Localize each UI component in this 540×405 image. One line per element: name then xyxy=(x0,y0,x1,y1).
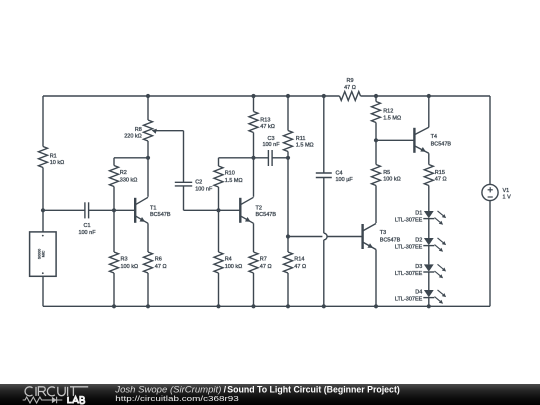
wire R5 bottom to T3 collector xyxy=(375,186,377,224)
svg-text:47 Ω: 47 Ω xyxy=(155,264,167,270)
wire R8 wiper to C2 xyxy=(156,130,184,132)
capacitor C2 xyxy=(175,181,192,183)
wire top supply rail right segment xyxy=(361,95,491,97)
wire right rail lower (V1 bottom) xyxy=(489,200,491,306)
resistor R14 xyxy=(284,252,293,273)
svg-text:C2: C2 xyxy=(195,180,202,186)
node junction R11 column / T3 base row xyxy=(286,234,290,238)
svg-text:10 kΩ: 10 kΩ xyxy=(50,160,65,166)
LED D2 xyxy=(424,238,434,245)
svg-text:47 Ω: 47 Ω xyxy=(435,177,447,183)
transistor T4 xyxy=(413,128,415,153)
svg-text:R9: R9 xyxy=(346,78,353,84)
wire T4 base row xyxy=(376,139,414,141)
svg-text:C3: C3 xyxy=(267,136,274,142)
wire R11 top lead xyxy=(287,96,289,131)
node junction R7 ground xyxy=(251,304,255,308)
wire R15 to D1 xyxy=(428,186,430,212)
svg-text:R11: R11 xyxy=(296,136,306,142)
potentiometer R8 xyxy=(144,120,153,141)
wire right rail upper (V1 top) xyxy=(489,96,491,185)
node junction R6 ground xyxy=(146,304,150,308)
transistor T1 xyxy=(134,198,136,223)
svg-text:R4: R4 xyxy=(225,256,232,262)
svg-text:R12: R12 xyxy=(383,109,393,115)
wire T3 base row xyxy=(288,236,322,238)
resistor R10 xyxy=(214,166,223,187)
resistor R2 xyxy=(110,166,119,187)
wire D2 to D3 xyxy=(428,246,430,265)
node junction top rail / C4 xyxy=(322,94,326,98)
voltage source V1 xyxy=(482,184,498,200)
svg-text:LTL-307EE: LTL-307EE xyxy=(395,297,423,303)
svg-text:R3: R3 xyxy=(121,256,128,262)
svg-text:100 kΩ: 100 kΩ xyxy=(225,264,243,270)
svg-text:47 kΩ: 47 kΩ xyxy=(260,124,275,130)
wire R12 top lead xyxy=(375,96,377,102)
wire R12 bottom to R5 top xyxy=(375,123,377,165)
wire R10 top lead xyxy=(218,158,220,166)
wire R8 top lead xyxy=(147,96,149,120)
microphone MIC1 box xyxy=(30,232,56,276)
wire T4 emitter to R15 xyxy=(428,153,430,164)
svg-text:R5: R5 xyxy=(383,170,390,176)
wire R4 to ground rail xyxy=(218,273,220,306)
svg-text:1.5 MΩ: 1.5 MΩ xyxy=(296,142,314,148)
resistor R9 xyxy=(340,92,361,101)
wire top supply rail left segment xyxy=(43,95,340,97)
svg-text:T1: T1 xyxy=(150,206,156,212)
wire left rail lower (mic to ground rail) xyxy=(42,276,44,306)
wire C2 bottom to T2 base row xyxy=(183,186,185,210)
node junction top rail / R11 xyxy=(286,94,290,98)
svg-text:LTL-307EE: LTL-307EE xyxy=(395,271,423,277)
resistor R3 xyxy=(110,252,119,273)
wire R14 to ground rail xyxy=(287,273,289,306)
svg-text:1 V: 1 V xyxy=(503,195,512,201)
transistor T3 xyxy=(361,224,363,249)
resistor R7 xyxy=(249,252,258,273)
node junction left rail / C1 xyxy=(41,208,45,212)
resistor R1 xyxy=(39,147,48,168)
svg-text:R1: R1 xyxy=(50,153,57,159)
node junction top rail / R13 xyxy=(251,94,255,98)
svg-text:1.5 MΩ: 1.5 MΩ xyxy=(383,116,401,122)
node junction C4 ground xyxy=(322,304,326,308)
LED D1 xyxy=(424,211,434,218)
wire D3 to D4 xyxy=(428,272,430,290)
CircuitLab logo wordmark LAB (hand-drawn bold letters) xyxy=(68,397,84,404)
svg-text:D4: D4 xyxy=(415,290,422,296)
svg-text:T2: T2 xyxy=(256,206,262,212)
node junction R14 ground xyxy=(286,304,290,308)
wire C1 input row xyxy=(43,209,85,211)
wire left rail upper (R1 branch) xyxy=(42,96,44,147)
resistor R15 xyxy=(424,165,433,186)
resistor R5 xyxy=(372,165,381,186)
svg-text:D2: D2 xyxy=(415,238,422,244)
resistor R11 xyxy=(284,131,293,152)
svg-text:R7: R7 xyxy=(260,256,267,262)
footer bar background xyxy=(0,384,540,405)
capacitor C3 xyxy=(267,150,269,166)
wire T2 emitter to R7 xyxy=(253,223,255,252)
node junction R10/R4 base row xyxy=(216,208,220,212)
resistor R4 xyxy=(214,252,223,273)
svg-text:LTL-307EE: LTL-307EE xyxy=(395,245,423,251)
svg-text:BC547B: BC547B xyxy=(431,141,452,147)
node junction top rail / R12 xyxy=(374,94,378,98)
svg-text:LTL-307EE: LTL-307EE xyxy=(395,217,423,223)
svg-text:330 kΩ: 330 kΩ xyxy=(120,178,138,184)
svg-text:D3: D3 xyxy=(415,264,422,270)
svg-text:47 Ω: 47 Ω xyxy=(260,264,272,270)
svg-text:100 nF: 100 nF xyxy=(78,230,96,236)
resistor R13 xyxy=(249,112,258,133)
svg-text:S0000: S0000 xyxy=(38,249,42,259)
capacitor C4 xyxy=(316,172,332,174)
wire R13 bottom to T2 collector xyxy=(253,133,255,197)
wire D4 to ground rail xyxy=(428,298,430,307)
node junction top rail / T4 collector xyxy=(427,94,431,98)
node junction C3 row / T2 collector xyxy=(251,156,255,160)
svg-text:100 µF: 100 µF xyxy=(336,177,354,183)
svg-text:47 Ω: 47 Ω xyxy=(344,85,356,91)
wire R11 bottom to R14 top xyxy=(287,152,289,253)
svg-text:R8: R8 xyxy=(135,127,142,133)
svg-text:47 Ω: 47 Ω xyxy=(294,264,306,270)
node junction R2/R3 base row xyxy=(112,208,116,212)
svg-text:MIC: MIC xyxy=(42,250,46,257)
node junction C3 / R11 column xyxy=(286,156,290,160)
transistor T2 xyxy=(239,198,241,223)
wire T4 collector lead xyxy=(428,96,430,127)
node junction R12 / T4 base row xyxy=(374,138,378,142)
svg-text:T3: T3 xyxy=(380,230,386,236)
svg-text:100 nF: 100 nF xyxy=(195,186,213,192)
svg-text:Josh Swope (SirCrumpit): Josh Swope (SirCrumpit) xyxy=(114,384,221,394)
wire C4 top lead xyxy=(323,96,325,173)
CircuitLab logo wordmark CIRCUIT (hand-drawn thin letters) xyxy=(25,387,88,396)
node junction R4 ground xyxy=(216,304,220,308)
wire T3 emitter to ground rail xyxy=(375,250,377,307)
node junction R3 ground xyxy=(112,304,116,308)
svg-text:100 nF: 100 nF xyxy=(262,142,280,148)
wire bottom ground rail xyxy=(43,305,490,307)
svg-text:R13: R13 xyxy=(260,118,270,124)
capacitor C1 xyxy=(84,202,86,218)
svg-text:BC547B: BC547B xyxy=(256,212,277,218)
svg-text:C1: C1 xyxy=(83,223,90,229)
svg-text:BC547B: BC547B xyxy=(380,238,401,244)
node junction T3 ground xyxy=(374,304,378,308)
resistor R12 xyxy=(372,102,381,123)
svg-text:100 kΩ: 100 kΩ xyxy=(121,264,139,270)
node junction R8 bottom / R2 xyxy=(146,156,150,160)
wire R2 top row xyxy=(114,157,148,159)
svg-text:BC547B: BC547B xyxy=(150,212,171,218)
resistor R6 xyxy=(144,252,153,273)
wire T1 emitter to R6 xyxy=(147,223,149,252)
svg-text:T4: T4 xyxy=(431,134,437,140)
svg-text:C4: C4 xyxy=(336,171,343,177)
node junction LED column ground xyxy=(427,304,431,308)
svg-text:R2: R2 xyxy=(120,170,127,176)
LED D3 xyxy=(424,264,434,271)
svg-text:1.5 MΩ: 1.5 MΩ xyxy=(225,178,243,184)
svg-text:http://circuitlab.com/c368r93: http://circuitlab.com/c368r93 xyxy=(115,394,239,403)
wire R7 to ground rail xyxy=(253,273,255,306)
wire R6 to ground rail xyxy=(147,273,149,306)
wire D1 to D2 xyxy=(428,219,430,238)
svg-text:R10: R10 xyxy=(225,171,235,177)
svg-text:R15: R15 xyxy=(435,170,445,176)
wire C4 bottom with hop over T3 base row xyxy=(323,178,325,234)
node junction top rail / R8 xyxy=(146,94,150,98)
svg-text:100 kΩ: 100 kΩ xyxy=(383,177,401,183)
wire C3 row xyxy=(219,157,269,159)
wire R2 bottom to R3 top xyxy=(113,187,115,253)
wire R8 bottom to T1 collector xyxy=(147,141,149,197)
svg-text:Sound To Light Circuit (Beginn: Sound To Light Circuit (Beginner Project… xyxy=(227,384,400,394)
LED D4 xyxy=(424,290,434,297)
svg-text:V1: V1 xyxy=(503,188,510,194)
svg-text:R6: R6 xyxy=(155,256,162,262)
wire R13 top lead xyxy=(253,96,255,112)
svg-text:220 kΩ: 220 kΩ xyxy=(124,134,142,140)
wire R3 to ground rail xyxy=(113,273,115,306)
wire R10 bottom to R4 top xyxy=(218,187,220,252)
svg-text:D1: D1 xyxy=(415,210,422,216)
CircuitLab logo resistor-diode symbol xyxy=(23,397,63,403)
svg-text:R14: R14 xyxy=(294,256,304,262)
